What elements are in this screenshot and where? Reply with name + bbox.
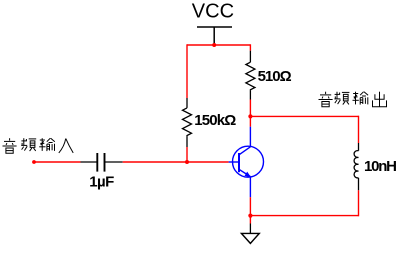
ground — [241, 224, 259, 244]
wire ground stub — [249, 216, 251, 224]
wire right branch lower — [358, 190, 360, 216]
svg-text:1µF: 1µF — [89, 173, 114, 190]
input terminal dot — [32, 160, 36, 164]
wire output top — [250, 115, 358, 117]
resistor 150kΩ — [183, 98, 192, 147]
wire input right — [123, 161, 229, 163]
capacitor 1µF — [81, 153, 123, 172]
wire 510 branch top — [249, 44, 251, 50]
node 音频输出 label — [319, 92, 387, 107]
svg-text:10nH: 10nH — [364, 158, 397, 175]
node 音频输入 label — [3, 138, 74, 153]
wire 510 to collector node — [249, 100, 251, 117]
wire top rail — [187, 44, 250, 46]
resistor 510Ω — [246, 51, 255, 100]
junction at VCC tap — [212, 43, 216, 47]
power rail symbol VCC — [197, 27, 232, 45]
wire left branch lower — [186, 147, 188, 162]
wire emitter stub — [249, 197, 251, 215]
svg-text:510Ω: 510Ω — [258, 68, 292, 85]
inductor 10nH — [354, 143, 358, 190]
wire input left — [34, 161, 81, 163]
svg-text:150kΩ: 150kΩ — [194, 112, 236, 129]
wire output bottom — [250, 215, 358, 217]
wire collector stub — [249, 116, 251, 126]
wire left branch upper — [186, 44, 188, 98]
junction emitter node — [248, 214, 252, 218]
svg-text:VCC: VCC — [192, 0, 234, 22]
wire right branch upper — [358, 116, 360, 143]
junction collector node — [248, 114, 252, 118]
transistor Q1 NPN — [229, 127, 264, 198]
junction base node — [185, 160, 189, 164]
